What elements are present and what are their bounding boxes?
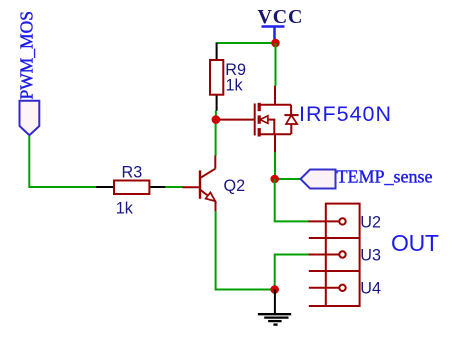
transistor Q2 [182, 156, 215, 212]
junction dot ground [270, 285, 279, 294]
connector pin stub 2 [309, 270, 360, 272]
transistor Q2 designator label [224, 177, 246, 195]
svg-text:TEMP_sense: TEMP_sense [337, 167, 433, 187]
power port VCC [262, 27, 285, 44]
port PWM_MOS label [16, 11, 36, 100]
wire TEMP junction to port [275, 178, 301, 180]
svg-text:IRF540N: IRF540N [299, 102, 392, 126]
wire TEMP junction to U2 pin [275, 179, 309, 221]
connector pin U2 [309, 218, 346, 224]
resistor R9 value label 1k [226, 77, 244, 95]
connector pin label U4 [360, 280, 381, 298]
svg-text:1k: 1k [226, 77, 244, 95]
resistor R3 designator label [122, 164, 143, 182]
connector pin U3 [309, 251, 346, 257]
resistor R9 [210, 43, 223, 111]
svg-text:OUT: OUT [391, 230, 439, 256]
mosfet U1 IRF540N [220, 86, 291, 153]
mosfet comment label IRF540N [299, 102, 392, 126]
wire R3 to Q2 base [165, 186, 183, 188]
resistor R3 [96, 181, 166, 195]
svg-text:PWM_MOS: PWM_MOS [16, 11, 36, 100]
connector pin stub 1 [309, 237, 360, 239]
port TEMP_sense [301, 170, 336, 189]
svg-text:U2: U2 [360, 213, 381, 231]
svg-text:1k: 1k [116, 199, 134, 217]
ground [258, 290, 291, 325]
wire junction to Q2 collector [215, 120, 217, 156]
svg-text:R3: R3 [122, 164, 143, 182]
port PWM_MOS [20, 101, 40, 135]
net label OUT [391, 230, 439, 256]
connector box [326, 204, 360, 306]
svg-text:U4: U4 [360, 280, 381, 298]
svg-text:Q2: Q2 [224, 177, 246, 195]
mosfet body diode [284, 105, 298, 134]
resistor R3 value label 1k [116, 199, 134, 217]
connector pin label U3 [360, 246, 381, 264]
wire port PWM_MOS to R3 [29, 136, 97, 187]
wire Q2 emitter to ground junction [216, 211, 275, 290]
junction dot at VCC [271, 39, 280, 48]
wire top rail R9 to VCC [216, 42, 276, 44]
junction dot at R9 bottom / gate [212, 115, 221, 124]
svg-text:VCC: VCC [258, 6, 304, 28]
connector pin U4 [309, 285, 346, 291]
wire mosfet source to TEMP junction [274, 152, 276, 179]
resistor R9 designator label [225, 61, 246, 79]
wire junction to gate [216, 119, 221, 121]
wire VCC to mosfet drain [275, 43, 277, 86]
power port VCC label [258, 6, 304, 28]
junction dot TEMP [270, 175, 279, 184]
port TEMP_sense label [337, 167, 433, 187]
svg-text:U3: U3 [360, 246, 381, 264]
connector pin stub bottom [309, 305, 360, 307]
wire R9 bottom to junction [215, 111, 217, 121]
connector pin label U2 [360, 213, 381, 231]
wire U3 pin to ground junction [275, 255, 309, 290]
